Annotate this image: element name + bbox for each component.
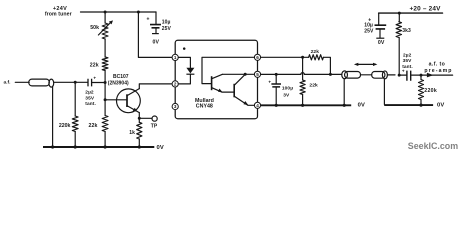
- wire Q1 emitter down: [138, 113, 140, 119]
- wire pin1 to LED anode: [178, 57, 190, 67]
- wire rail to R1: [104, 12, 106, 23]
- wire pin5 to C3: [275, 74, 277, 83]
- svg-text:22k: 22k: [309, 83, 318, 89]
- wire +24V feed to pin1: [138, 12, 172, 57]
- capacitor C3 100u 3V plates: [271, 84, 281, 87]
- svg-text:2µ2: 2µ2: [403, 52, 412, 58]
- junction R8 on supply rail: [398, 12, 401, 15]
- wire R9 tap down: [420, 75, 422, 79]
- resistor R5 1k emitter: [137, 122, 142, 139]
- wire between cables: [361, 74, 372, 76]
- pin 6 of U1: [254, 54, 260, 60]
- wire rail to C1: [155, 12, 157, 24]
- svg-text:0V: 0V: [153, 39, 160, 45]
- wire +20-24V rail: [379, 12, 443, 14]
- transistor Q1 emitter stroke: [127, 106, 139, 113]
- wire +24V rail: [81, 11, 157, 13]
- svg-text:50k: 50k: [90, 25, 99, 31]
- svg-text:TP: TP: [151, 123, 158, 129]
- svg-text:tant.: tant.: [402, 64, 413, 70]
- svg-text:35V: 35V: [403, 58, 413, 64]
- svg-text:3k3: 3k3: [402, 28, 411, 34]
- wire pin5 line continued: [304, 73, 341, 75]
- wire 0V rail left: [43, 146, 154, 148]
- junction bias node on pin6 line: [301, 56, 304, 59]
- resistor R4 220k input: [72, 116, 78, 132]
- pin 4 of U1: [254, 102, 260, 108]
- arrow to pre-amp: [427, 73, 434, 78]
- wire C2 to node A: [92, 82, 105, 84]
- svg-text:35V: 35V: [85, 96, 95, 102]
- svg-text:(2N3904): (2N3904): [108, 80, 129, 86]
- svg-text:BC107: BC107: [113, 74, 129, 80]
- transistor Q1 base bar: [126, 94, 128, 107]
- junction screen on left rail: [51, 145, 54, 148]
- wire a.f. input: [15, 81, 29, 83]
- wire collectors rail to pin5: [222, 73, 254, 75]
- svg-text:25V: 25V: [162, 26, 172, 32]
- wire Q1 collector to pin2: [139, 84, 172, 89]
- capacitor C5 2u2 35V tant plates: [407, 71, 411, 81]
- junction R5 on left rail: [138, 145, 141, 148]
- wire R2 to node A: [104, 71, 106, 83]
- wire R7 to mid 0V rail: [302, 95, 304, 106]
- resistor R2 22k upper: [102, 57, 108, 71]
- svg-text:a.f.: a.f.: [4, 79, 11, 85]
- capacitor C2 2u2 35V tant plates: [88, 79, 92, 87]
- wire bias node down to R7: [302, 57, 304, 80]
- wire R6 down to pin5 line: [323, 57, 330, 74]
- wire input screen to 0V: [52, 86, 54, 147]
- junction C3 on mid rail: [275, 104, 278, 107]
- transistor T2 of U1 base bar: [233, 84, 235, 98]
- wire right screen to right rail: [383, 79, 385, 105]
- junction R6 leg on pin5 line: [329, 73, 332, 76]
- wire node B to Q1 base: [105, 99, 126, 101]
- resistor R1 50k variable: [102, 23, 108, 39]
- wire pin5 line: [261, 73, 301, 75]
- orientation dot of U1: [183, 47, 186, 50]
- terminal 0V bar under C1: [152, 33, 159, 35]
- junction R9 tap: [420, 74, 423, 77]
- resistor R9 220k output: [419, 80, 424, 100]
- resistor R8 3k3: [396, 22, 401, 38]
- screened cable out left body: [345, 72, 361, 79]
- svg-text:+: +: [268, 79, 271, 84]
- wire right cable to output node: [387, 74, 395, 76]
- svg-text:6: 6: [256, 55, 259, 60]
- pin 5 of U1: [254, 71, 260, 77]
- junction node B base: [104, 98, 107, 101]
- resistor R3 22k lower: [102, 116, 108, 132]
- svg-text:0V: 0V: [358, 102, 366, 108]
- wire 0V rail right: [384, 104, 433, 106]
- wire R3 to 0V rail: [104, 132, 106, 148]
- wire node C to C2: [75, 81, 87, 83]
- svg-text:100µ: 100µ: [282, 86, 293, 92]
- wire C1 lower lead: [155, 28, 157, 33]
- wire R1 to R2: [104, 39, 106, 57]
- wire node B to R3: [104, 100, 106, 116]
- wire left screen to mid rail: [343, 79, 345, 105]
- screened cable input end ellipse: [49, 79, 54, 87]
- wire rail to R8: [398, 13, 400, 22]
- junction screen on mid rail: [343, 104, 346, 107]
- transistor Q1 circle: [116, 89, 140, 113]
- svg-text:4: 4: [256, 103, 259, 108]
- wire rail to C4: [378, 13, 380, 25]
- svg-text:1: 1: [174, 55, 177, 60]
- svg-text:220k: 220k: [59, 123, 71, 129]
- svg-text:5: 5: [256, 72, 259, 77]
- svg-text:3: 3: [174, 104, 177, 109]
- junction R4 on left rail: [74, 145, 77, 148]
- screened cable out left ellipse: [342, 71, 348, 79]
- transistor T1 emitter stroke: [212, 88, 234, 92]
- svg-text:2: 2: [174, 82, 177, 87]
- svg-text:2µ2: 2µ2: [85, 90, 94, 96]
- junction C3 tap on pin5 line: [275, 73, 278, 76]
- resistor R7 22k to 0V: [300, 80, 305, 95]
- svg-text:0V: 0V: [378, 40, 385, 46]
- terminal 0V bar under C4: [376, 37, 384, 39]
- wire C3 to mid 0V rail: [275, 87, 277, 105]
- svg-text:a.f. to: a.f. to: [429, 62, 446, 68]
- svg-text:SeekIC.com: SeekIC.com: [408, 141, 458, 151]
- wire TP stub: [139, 117, 152, 119]
- optocoupler U1 CNY48 package outline: [175, 40, 257, 118]
- svg-text:+: +: [93, 76, 96, 81]
- junction T2 collector on rail: [244, 73, 247, 76]
- svg-text:22k: 22k: [89, 123, 98, 129]
- svg-text:3V: 3V: [283, 93, 290, 99]
- pin 3 of U1: [172, 103, 178, 109]
- junction rail to 50k: [104, 11, 107, 14]
- wire R5 to 0V rail: [138, 139, 140, 147]
- wire node C to R4: [74, 82, 76, 116]
- transistor T1 of U1 base bar: [211, 76, 213, 90]
- capacitor C1 10u 25V plates: [150, 25, 161, 28]
- wire node to C5: [399, 74, 406, 76]
- capacitor C4 10u 25V plates: [375, 25, 387, 29]
- svg-text:+: +: [146, 16, 149, 22]
- junction R3 on left rail: [104, 145, 107, 148]
- wire cable to node C: [54, 81, 76, 83]
- svg-text:25V: 25V: [364, 28, 374, 34]
- transistor Q1 collector stroke: [127, 89, 139, 96]
- screened cable input body: [29, 79, 50, 86]
- svg-text:22k: 22k: [311, 49, 320, 55]
- svg-text:from tuner: from tuner: [45, 12, 72, 18]
- transistor T1 collector stroke: [212, 74, 222, 78]
- junction node C 220k tap: [74, 81, 77, 84]
- arrow of potentiometer R1: [98, 22, 111, 35]
- svg-text:10µ: 10µ: [162, 20, 171, 26]
- wire 0V rail mid: [261, 104, 352, 106]
- wire node A to node B: [104, 83, 106, 100]
- screened cable out right ellipse: [382, 71, 387, 79]
- pin 2 of U1: [172, 81, 178, 87]
- pin 1 of U1: [172, 54, 178, 60]
- wire pin6 to T1 base: [202, 57, 254, 83]
- junction output node: [398, 74, 401, 77]
- wire C5 to pre-amp: [411, 74, 452, 76]
- wire C4 lower lead: [379, 29, 381, 38]
- arrow both directions over cables: [356, 63, 375, 65]
- junction rail to LED feed: [137, 11, 140, 14]
- LED D1 of U1: [186, 68, 194, 74]
- svg-text:0V: 0V: [157, 145, 165, 151]
- svg-text:22k: 22k: [90, 62, 99, 68]
- wire LED cathode to pin2: [178, 74, 190, 84]
- resistor R6 22k feedback: [309, 55, 324, 60]
- transistor T2 collector stroke: [235, 74, 246, 85]
- svg-text:220k: 220k: [424, 88, 437, 94]
- wire R8 to output node: [398, 38, 400, 76]
- junction R7 on mid rail: [301, 104, 304, 107]
- svg-text:CNY48: CNY48: [196, 103, 213, 109]
- junction node A coupling cap: [104, 81, 107, 84]
- wire R9 to right rail: [420, 100, 422, 106]
- svg-text:+20 – 24V: +20 – 24V: [410, 5, 442, 12]
- svg-text:pre-amp: pre-amp: [424, 68, 452, 74]
- wire pin6 line: [261, 56, 309, 58]
- transistor T2 emitter stroke: [235, 97, 255, 106]
- wire TP node to R5: [138, 118, 140, 122]
- screened cable out right body: [372, 72, 385, 79]
- junction TP node: [138, 117, 141, 120]
- terminal TP open circle: [152, 116, 157, 121]
- svg-text:1k: 1k: [129, 130, 135, 136]
- junction R9 on right rail: [419, 104, 422, 107]
- svg-text:0V: 0V: [437, 103, 445, 109]
- wire hop over bias wire: [301, 73, 305, 75]
- svg-text:tant.: tant.: [85, 101, 96, 107]
- wire R4 to 0V rail: [74, 132, 76, 148]
